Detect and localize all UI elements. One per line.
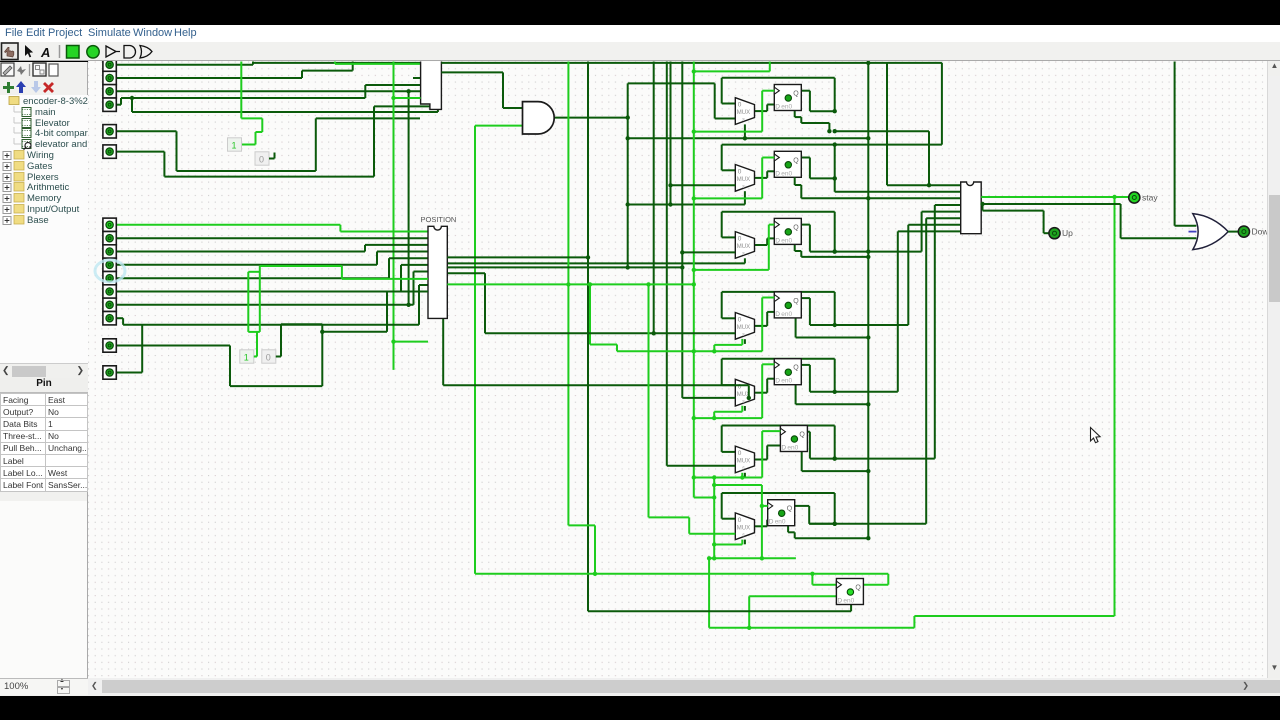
input pin M2 (103, 232, 116, 245)
multiplexer MUX4 (735, 313, 754, 340)
input pin M7 (103, 298, 116, 311)
wire row2 mux select stub (744, 191, 746, 204)
input pin I4 (103, 98, 116, 111)
svg-text:Q: Q (855, 585, 861, 592)
svg-text:stay: stay (1142, 193, 1158, 203)
wire row2 Q lane to combiner (834, 178, 836, 191)
wire row6 mux select stub (744, 473, 746, 478)
wire bright feedback long y573 (475, 573, 888, 575)
wire vertical tap x408 down to position area (408, 91, 410, 304)
wire select row3 horizontal y263 (447, 262, 745, 264)
wire row6 Q lane to combiner (835, 458, 935, 460)
grid dots pattern applied via rect (88, 62, 1267, 678)
wire stay output bright (981, 196, 1114, 198)
svg-text:Q: Q (793, 91, 799, 98)
input pin B (103, 366, 116, 379)
wire row5 mux select stub (744, 406, 746, 411)
wire row1 Q lane to combiner (835, 130, 929, 132)
wire select/enable trunk x868 (867, 63, 869, 538)
wire row4 Q lane to combiner (835, 324, 909, 326)
wire select row2 horizontal y204 (628, 204, 745, 206)
mouse cursor (1091, 428, 1101, 443)
wire row5 Q lane to combiner (835, 391, 898, 393)
wire row3 Q output (801, 224, 810, 226)
bottom letterbox black bar (0, 696, 1280, 720)
AND gate U2 (523, 102, 555, 134)
wire row1 enable zigzag (794, 111, 796, 118)
svg-text:en0: en0 (787, 445, 798, 452)
wire x322 vertical and y331 hook (321, 324, 323, 386)
wire row7 Q lane to combiner (809, 523, 926, 525)
wire row5 link from position splitter bottom (442, 318, 444, 385)
bottom bar: zoom + hscroll (0, 678, 1280, 696)
wire row6 Q output (807, 431, 810, 433)
wire select trunk vertical x627 (627, 83, 629, 267)
svg-text:D: D (775, 378, 780, 385)
svg-text:Up: Up (1062, 228, 1073, 238)
wire encoder output top run to select column (441, 62, 868, 64)
wire splitter output y257 right (447, 256, 588, 258)
wire row6 mux output to D (755, 459, 768, 461)
wire row7 mux select stub (744, 540, 746, 545)
wire row6 feedback loop (722, 425, 835, 427)
wire row6 enable drop (801, 452, 803, 472)
wire pin M7 staircase to splitter (116, 304, 413, 306)
wire constant-0-upper stub (274, 153, 276, 159)
input pin M4 (103, 258, 116, 271)
svg-text:D: D (775, 311, 780, 318)
wire top lane to splitter input lane x941 (868, 62, 942, 64)
D flip-flop FF6 (780, 426, 807, 452)
multiplexer MUX3 (735, 232, 754, 259)
svg-text:D: D (775, 170, 780, 177)
input pin M8 (103, 312, 116, 325)
wire row2 feedback loop (722, 144, 942, 146)
wire mux5 input2 (682, 397, 735, 399)
wire row4 clock bright (617, 350, 762, 352)
wire row3 enable zigzag (794, 244, 796, 251)
input pin I5 (103, 125, 116, 138)
wire row7 enable zigzag (787, 526, 789, 533)
left panel (0, 62, 88, 678)
wire row3 clock bright (694, 269, 769, 271)
multiplexer MUX2 (735, 165, 754, 192)
wire OR output to Down (1228, 231, 1238, 233)
edit tool arrow (25, 45, 33, 57)
vertical scrollbar (1267, 61, 1280, 678)
D flip-flop FF2 (774, 151, 801, 177)
wire pin I2 to AND input staircase (113, 77, 302, 79)
wire row5 mux output to D (755, 392, 768, 394)
wire row3 feedback loop (722, 211, 835, 213)
wire constant-1-lower bright staircase (254, 356, 257, 358)
svg-text:Q: Q (793, 224, 799, 231)
wire pin A route (116, 345, 230, 347)
wire AND output (555, 117, 628, 119)
OR gate U4 (1193, 214, 1228, 250)
svg-text:Q: Q (787, 506, 793, 513)
wire dark vertical x670 from top (670, 62, 672, 205)
svg-text:MUX: MUX (737, 244, 750, 250)
svg-text:0: 0 (738, 517, 742, 524)
wire encoder output 2 (441, 71, 503, 73)
wire clock bright staircase x590-x617 (589, 284, 591, 344)
wire row1 mux output to D (755, 110, 768, 112)
wire bright encoder input y98 (394, 97, 421, 99)
input pin M3 (103, 245, 116, 258)
wire splitter output y267 to x682 (447, 266, 682, 268)
wire row5 select jog bright (713, 412, 715, 418)
explorer toolbar icons (1, 63, 14, 76)
wire row1 mux input2 feed (628, 82, 715, 84)
wire pin M3 staircase to splitter (116, 251, 365, 253)
wire OR gate feed vertical x1174 (1174, 62, 1176, 226)
constant 1 (upper) (228, 138, 242, 151)
wire bright stub y341 (394, 341, 429, 343)
not gate icon (106, 46, 116, 57)
svg-text:Q: Q (793, 365, 799, 372)
wire bright drop column x714 (713, 478, 715, 559)
input pin I6 (103, 145, 116, 158)
input pin M6 (103, 285, 116, 298)
wire row5 Q output (801, 364, 810, 366)
wire bright vertical x568 lower (567, 284, 569, 525)
wire row7 Q output (795, 505, 810, 507)
wire branch to Up pin (982, 204, 984, 211)
input pin A (103, 339, 116, 352)
wire row4 select jog bright (713, 345, 715, 351)
wire DFF8 clock loop (811, 574, 813, 585)
wire bright vertical x393 from top (393, 62, 395, 370)
wire dark vertical x653 from top (653, 62, 655, 334)
svg-text:0: 0 (266, 352, 271, 362)
wire row7 mux output to D (755, 525, 768, 527)
wire row5 feedback loop (722, 358, 835, 360)
svg-text:MUX: MUX (737, 177, 750, 183)
attribute header (0, 378, 88, 393)
wire constant-0-lower route (276, 356, 281, 358)
svg-text:en0: en0 (775, 519, 786, 526)
svg-text:D: D (769, 519, 774, 526)
D flip-flop FF7 (768, 500, 795, 526)
wire AND input2 bright (475, 125, 523, 127)
wire pin M1 bright staircase to splitter (116, 224, 340, 226)
wire pin I6 to encoder bottom (113, 151, 164, 153)
svg-text:en0: en0 (781, 311, 792, 318)
svg-text:en0: en0 (781, 104, 792, 111)
combiner splitter U3 box (961, 182, 982, 234)
svg-text:0: 0 (738, 169, 742, 176)
multiplexer MUX6 (735, 446, 754, 473)
wire OR gate upper input (1175, 225, 1197, 227)
wire row7 select jog bright (741, 540, 743, 545)
wire row3 Q lane to combiner (810, 251, 922, 253)
wire dark vertical x588 from top to DFF8 (587, 62, 589, 612)
wire pin M8 low route (116, 317, 123, 319)
wire pin I1 run (113, 64, 253, 66)
wire row4 mux select stub (744, 339, 746, 344)
wire bright bottom bus (709, 627, 914, 629)
wire row1 feedback loop (722, 77, 835, 79)
input pin M1 (103, 218, 116, 231)
constant 0 (upper) (255, 152, 269, 165)
svg-text:D: D (775, 237, 780, 244)
wire pin I3 to encoder with tap (113, 90, 421, 92)
svg-text:MUX: MUX (737, 325, 750, 331)
wire dark enable to DFF8 (588, 610, 851, 612)
top letterbox black bar (0, 0, 1280, 25)
svg-text:en0: en0 (781, 170, 792, 177)
svg-text:MUX: MUX (737, 110, 750, 116)
wire row1 clock bright (694, 131, 762, 133)
output pin stay (1129, 192, 1159, 203)
wire row4 mux output to D (755, 325, 768, 327)
wire DFF8 D input bright (749, 595, 836, 597)
svg-text:Q: Q (793, 157, 799, 164)
menu bar (0, 25, 1280, 42)
wire pin M5 staircase to splitter (116, 277, 389, 279)
wire bright vertical x568 from top (567, 62, 569, 285)
wire row6 clock bright (694, 477, 762, 479)
wire row4 Q output (801, 297, 810, 299)
svg-text:0: 0 (738, 236, 742, 243)
and gate icon (124, 46, 136, 59)
D flip-flop FF5 (774, 359, 801, 385)
wire select row1 horizontal y138 (628, 137, 869, 139)
wire dark vertical x682 from top to mux5 (681, 62, 683, 398)
svg-text:MUX: MUX (737, 459, 750, 465)
wire dark vertical x666 from top to mux6 (666, 62, 668, 466)
wire row4 enable drop (795, 318, 797, 338)
input pin M5 (103, 272, 116, 285)
input pin icon (67, 46, 80, 59)
constant 0 (lower) (262, 350, 276, 363)
wire pin I4 staircase to encoder (113, 104, 121, 106)
svg-text:0: 0 (259, 154, 264, 164)
wire DFF8 Q out (863, 584, 889, 586)
encoder input stubs (413, 77, 421, 79)
multiplexer MUX1 (735, 98, 754, 125)
output pin icon (87, 46, 99, 58)
wire splitter output bright y284 clock source (447, 283, 694, 285)
output pin Down (1238, 226, 1273, 237)
wire row3 mux select stub (744, 258, 746, 263)
svg-text:en0: en0 (781, 378, 792, 385)
wire row7 clock bright (714, 484, 762, 486)
wire lane x887 from top (886, 63, 888, 185)
svg-text:0: 0 (738, 102, 742, 109)
tree h-scrollbar (0, 363, 88, 378)
multiplexer MUX5 (735, 379, 754, 406)
wire row1 mux select stub (744, 124, 746, 138)
svg-text:0: 0 (738, 450, 742, 457)
svg-text:1: 1 (244, 352, 249, 362)
hover halo (95, 260, 125, 282)
wire row2 mux output to D (755, 177, 768, 179)
wire row3 mux output to D (755, 244, 768, 246)
output pin Up (1049, 228, 1073, 239)
wire mux2 input2 (671, 184, 736, 186)
multiplexer MUX7 (735, 513, 754, 540)
svg-text:en0: en0 (843, 598, 854, 605)
wire encoder bright input y63.9 (334, 62, 336, 64)
wire mux4 input2 from splitter (447, 272, 485, 274)
svg-text:0: 0 (738, 317, 742, 324)
wire en row2 long line to combiner (794, 177, 796, 185)
poke tool selected (2, 43, 19, 60)
D flip-flop FF8 (836, 579, 863, 605)
input pin I2 (103, 71, 116, 84)
wire pin M6 staircase to splitter (116, 291, 401, 293)
svg-text:D: D (775, 104, 780, 111)
D flip-flop FF1 (774, 85, 801, 111)
svg-text:D: D (837, 598, 842, 605)
wire row5 enable drop (795, 385, 797, 405)
svg-text:MUX: MUX (737, 525, 750, 531)
wire AND gate input1 drop (502, 72, 504, 108)
wire row7 feedback loop (722, 492, 835, 494)
encoder U1 box (421, 62, 442, 110)
wire row4 feedback loop (722, 291, 835, 293)
wire bright top jog x769 (694, 70, 770, 72)
wire row2 clock bright (694, 197, 762, 199)
wire bright clock vertical x693 from top (693, 62, 695, 498)
wire bright down from stay junction (1114, 197, 1116, 616)
wire bright long vertical x475 (474, 126, 476, 574)
wire bright x568 hook to y573 (568, 524, 595, 526)
wire bright bottom left hook (709, 557, 796, 559)
wire mux6 input2 (667, 465, 736, 467)
wire pin M4 staircase to splitter (116, 264, 377, 266)
svg-text:Down: Down (1252, 227, 1268, 237)
wire row5 clock bright (694, 417, 762, 419)
wire mux3 input2 (682, 251, 735, 253)
or gate icon (140, 46, 152, 59)
svg-text:en0: en0 (781, 237, 792, 244)
constant 1 (lower) (240, 350, 254, 363)
wire pin I5 staircase (113, 130, 177, 132)
wire row1 Q output (801, 90, 810, 92)
wire combiner output down path (981, 203, 1120, 205)
svg-text:Q: Q (799, 432, 805, 439)
input pin I1 (103, 58, 116, 71)
wire pin B route up (116, 372, 142, 374)
input pin I3 (103, 85, 116, 98)
project buttons row (3, 82, 14, 93)
svg-text:Q: Q (793, 298, 799, 305)
wire pin M2 staircase to splitter (116, 237, 428, 239)
schematic canvas (88, 61, 1267, 678)
main toolbar (0, 42, 1280, 61)
svg-text:POSITION: POSITION (421, 215, 457, 224)
svg-text:A: A (40, 45, 50, 60)
svg-text:1: 1 (232, 140, 237, 150)
wire row2 Q output (801, 157, 810, 159)
splitter POSITION box (428, 226, 447, 318)
wire mux7 input2 bright staircase (648, 284, 650, 517)
D flip-flop FF4 (774, 292, 801, 318)
D flip-flop FF3 (774, 218, 801, 244)
wire constant-1-upper bright staircase up (242, 144, 256, 146)
svg-text:D: D (781, 445, 786, 452)
wire OR floating input dash (1189, 231, 1197, 233)
